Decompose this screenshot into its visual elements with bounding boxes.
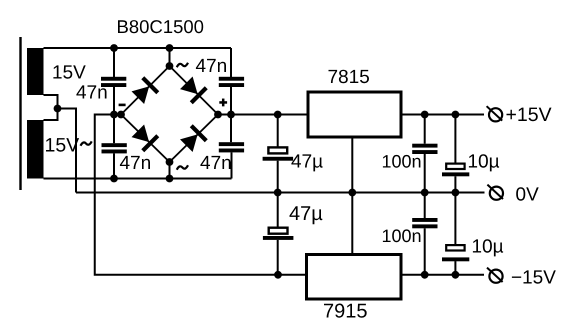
wire: U2 output to -15 terminal	[401, 274, 484, 276]
capacitor C1 47n (across D1) plates	[101, 77, 126, 81]
label 47n (C3)	[120, 156, 150, 169]
wire: winding2 bottom to bottom AC rail	[44, 178, 232, 180]
wire: C4 top lead from plus node	[230, 115, 232, 143]
terminal +15V slash	[487, 106, 503, 120]
capacitor C7 100n plates	[412, 144, 437, 148]
AC tilde at transformer	[81, 141, 92, 145]
wire: C4 bottom lead down and left to bottom AC rail	[231, 152, 233, 178]
label -15V	[512, 270, 556, 283]
capacitor C8 minus plate (solid)	[442, 172, 469, 176]
capacitor C5 minus plate (solid)	[263, 157, 294, 161]
node: center tap junction	[54, 105, 62, 113]
node: C7,C9 / 0V rail	[421, 189, 429, 197]
wire: C6 bottom lead to -15 rail	[277, 240, 279, 275]
capacitor C9 100n plates	[412, 218, 437, 222]
capacitor C2 47n (across D2) plates	[219, 77, 244, 81]
wire: C9 bottom lead to -15 rail	[424, 228, 426, 274]
node: bridge right vertex (plus)	[214, 111, 222, 119]
minus sign at bridge left	[119, 104, 126, 107]
wire: C3 top lead from minus node	[113, 115, 115, 144]
wire: C3 bottom lead to bottom AC rail	[113, 153, 115, 178]
wire: center tap to 0V rail	[58, 109, 77, 193]
capacitor C8 10u electrolytic plus plate (open)	[446, 164, 464, 169]
capacitor C6 47u electrolytic plus plate (open)	[269, 228, 288, 234]
label 47u (C6)	[290, 206, 323, 224]
node: bridge bottom vertex	[166, 158, 174, 166]
label 47n (C4)	[200, 156, 230, 169]
label +15V	[507, 108, 552, 122]
diode D4 (bottom AC to plus)	[179, 124, 208, 153]
capacitor C3 47n (across D3) plates	[102, 143, 127, 147]
wire: C10 bottom lead to -15 rail	[454, 261, 456, 275]
node: C6 / -15 rail	[274, 271, 282, 279]
label 10u (C10)	[473, 239, 503, 256]
transformer TR1 secondary winding 1 (15V)	[27, 48, 44, 95]
diode D2 (top AC to plus)	[179, 75, 208, 104]
label 47u (C5)	[291, 154, 322, 171]
label B80C1500	[118, 20, 203, 33]
wire: C9 top lead from 0V rail	[424, 193, 426, 219]
capacitor C4 47n (across D4) plates	[219, 142, 244, 146]
bridge rectifier B1 diagonal wire top-left	[121, 66, 170, 115]
label 7815	[329, 70, 370, 84]
wire: C7 bottom lead to 0V rail	[424, 154, 426, 193]
node: top rail / C1	[110, 44, 118, 52]
node: C10 / -15 rail	[452, 271, 460, 279]
wire: C2 bottom lead to plus node	[230, 87, 232, 115]
node: bridge bottom vertex to rail junction	[166, 175, 174, 183]
tilde at bridge top node	[177, 63, 188, 67]
label 15V (winding 2)	[46, 138, 79, 152]
terminal 0V slash	[487, 185, 503, 199]
node: C8,C10 / 0V rail	[452, 189, 460, 197]
label 47n (C1)	[76, 85, 106, 98]
wire: C8 bottom lead to 0V rail	[454, 176, 456, 192]
node: gnd pin / 0V rail	[348, 189, 356, 197]
wire: C7 top lead from +15 rail	[424, 115, 426, 144]
wire: C8 top lead from +15 rail	[454, 115, 456, 164]
node: C9 / -15 rail	[421, 271, 429, 279]
bridge rectifier B1 diagonal wire top-right	[170, 66, 219, 115]
label 100n (C7)	[383, 155, 421, 168]
bridge rectifier B1 diagonal wire bottom-right	[170, 115, 219, 163]
node: C3 / bottom AC rail	[110, 175, 118, 183]
wire: center-tap step between windings	[44, 95, 58, 120]
terminal -15V circle	[489, 270, 502, 283]
capacitor C5 47u electrolytic plus plate (open)	[268, 147, 287, 153]
terminal 0V circle	[490, 187, 503, 200]
wire: C10 top lead from 0V rail	[454, 193, 456, 246]
node: C5,C6 / 0V rail	[274, 189, 282, 197]
wire: bridge top vertex lead	[169, 48, 171, 66]
wire: U1 gnd pin down to 7915 top pin	[351, 137, 353, 255]
wire: transformer winding1 top to top AC rail	[44, 47, 232, 49]
label 100n (C9)	[383, 229, 421, 242]
node: C8 / +15 rail	[452, 111, 460, 119]
wire: 0V rail	[76, 192, 485, 194]
wire: C1 top lead	[113, 48, 115, 77]
node: bridge left vertex (minus)	[117, 111, 125, 119]
bridge rectifier B1 diagonal wire bottom-left	[121, 115, 170, 163]
wire: top rail drop to capacitor C2	[230, 48, 232, 77]
wire: plus node to 7815 input	[218, 114, 308, 116]
regulator U2 7915 box	[307, 255, 402, 300]
node: top rail / bridge top	[166, 44, 174, 52]
label 0V	[516, 187, 539, 201]
node: C5 / plus rail	[274, 111, 282, 119]
wire: C5 bottom lead to 0V rail	[277, 161, 279, 193]
node: C1 / minus rail	[110, 111, 118, 119]
wire: C5 top lead from plus rail	[277, 115, 279, 148]
wire: bridge bottom vertex lead to rail	[169, 162, 171, 179]
diode D1 (minus to top AC)	[130, 76, 159, 105]
wire: U1 output to +15 terminal	[401, 114, 484, 116]
terminal +15V circle	[489, 108, 502, 121]
node: C7 / +15 rail	[421, 111, 429, 119]
label 15V (winding 1)	[53, 65, 85, 78]
label 10u (C8)	[469, 154, 499, 171]
wire: minus node to 7915 input (left, down, right)	[95, 115, 307, 275]
diode D3 (minus to bottom AC)	[130, 123, 159, 152]
capacitor C10 10u electrolytic plus plate (open)	[446, 245, 464, 250]
capacitor C6 minus plate (solid)	[263, 236, 294, 240]
wire: C1 bottom lead to minus node	[113, 87, 115, 115]
label 47n (C2)	[196, 59, 226, 72]
node: bridge top vertex	[166, 62, 174, 70]
transformer TR1 core	[19, 37, 21, 190]
terminal -15V slash	[487, 268, 503, 282]
capacitor C10 minus plate (solid)	[442, 257, 469, 261]
regulator U1 7815 box	[308, 92, 401, 137]
wire: C6 top lead from 0V rail	[277, 193, 279, 228]
label 7915	[324, 304, 367, 318]
plus sign at bridge right	[219, 101, 227, 104]
transformer TR1 secondary winding 2 (15V)	[27, 120, 44, 179]
node: C2,C4 / plus rail	[227, 111, 235, 119]
tilde at bridge bottom node	[177, 165, 188, 169]
